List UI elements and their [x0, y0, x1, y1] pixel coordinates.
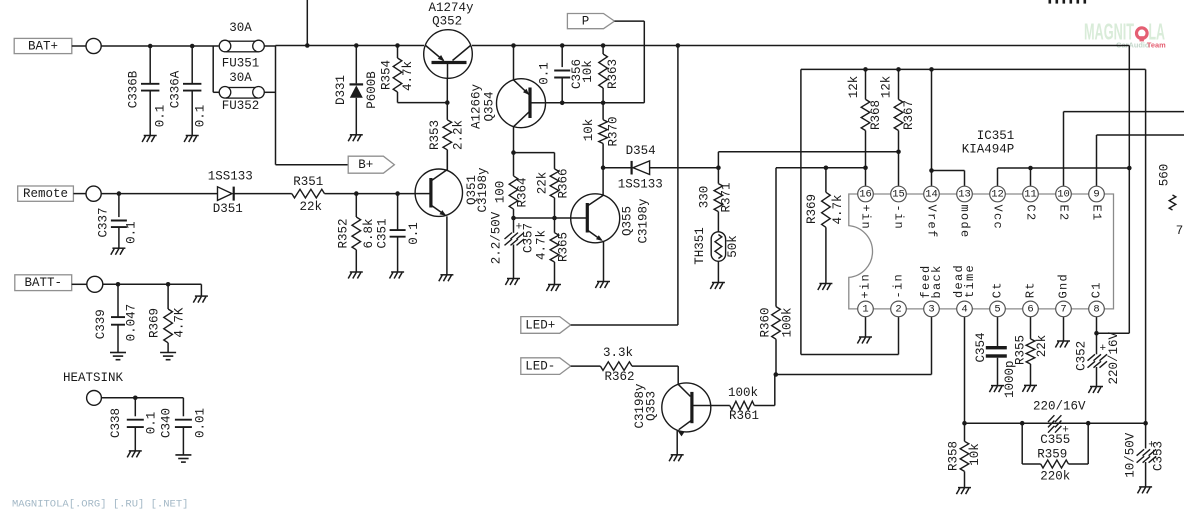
- svg-text:D354: D354: [626, 144, 656, 158]
- svg-text:12k: 12k: [880, 76, 894, 99]
- svg-text:15: 15: [892, 189, 905, 201]
- svg-text:Ct: Ct: [991, 281, 1005, 298]
- pin label E2: [1057, 204, 1071, 221]
- pin 15: [891, 186, 907, 202]
- transistor Q351: [415, 167, 490, 216]
- wire: [1145, 69, 1147, 448]
- pin label +in: [859, 273, 873, 299]
- ground: [175, 455, 191, 462]
- svg-text:back: back: [930, 264, 944, 298]
- svg-text:LED+: LED+: [525, 318, 555, 332]
- capacitor C354: [974, 317, 1017, 398]
- pin label +in: [859, 204, 873, 230]
- svg-text:22k: 22k: [1035, 335, 1049, 358]
- svg-text:100k: 100k: [781, 307, 795, 337]
- transistor Q355: [571, 194, 651, 244]
- ground: [669, 455, 684, 462]
- svg-text:4: 4: [961, 303, 967, 315]
- svg-text:C339: C339: [94, 309, 108, 339]
- svg-text:2.2/50V: 2.2/50V: [489, 211, 503, 264]
- wire: [101, 45, 218, 47]
- resistor R362: [600, 346, 678, 384]
- ground: [142, 136, 157, 143]
- wire: [1097, 46, 1130, 334]
- resistor R370: [582, 103, 621, 168]
- capacitor C353: [1124, 432, 1166, 487]
- svg-text:Q353: Q353: [644, 391, 658, 421]
- resistor R365: [535, 218, 571, 285]
- svg-text:5: 5: [994, 303, 1000, 315]
- svg-text:4.7k: 4.7k: [535, 230, 549, 260]
- pin label feedback: [919, 264, 944, 298]
- junction: [511, 216, 516, 221]
- capacitor C336A: [168, 46, 207, 136]
- svg-text:E2: E2: [1057, 204, 1071, 221]
- svg-text:560: 560: [1158, 164, 1172, 187]
- svg-text:R354: R354: [380, 60, 394, 90]
- junction: [133, 396, 138, 401]
- wire: [602, 168, 604, 196]
- ground: [127, 451, 142, 458]
- svg-text:0.1: 0.1: [193, 105, 207, 128]
- svg-text:10k: 10k: [582, 119, 596, 142]
- svg-text:1SS133: 1SS133: [208, 170, 253, 184]
- svg-text:+in: +in: [859, 273, 873, 299]
- junction: [929, 67, 934, 72]
- svg-text:330: 330: [697, 186, 711, 209]
- svg-text:Vref: Vref: [925, 204, 939, 238]
- svg-text:R358: R358: [947, 441, 961, 471]
- svg-text:BAT+: BAT+: [28, 40, 58, 54]
- svg-text:100k: 100k: [728, 386, 758, 400]
- junction: [445, 100, 450, 105]
- junction: [148, 44, 153, 49]
- junction: [676, 43, 681, 48]
- wire: [998, 168, 1130, 186]
- wire: [103, 284, 202, 296]
- resistor R367: [880, 69, 917, 151]
- junction: [929, 168, 934, 173]
- fuse FU351: [219, 21, 264, 70]
- svg-text:E1: E1: [1090, 204, 1104, 221]
- resistor 560: [1158, 164, 1184, 238]
- wire: [264, 46, 275, 165]
- svg-text:R351: R351: [293, 175, 323, 189]
- pin 5: [990, 301, 1006, 317]
- svg-text:220k: 220k: [1040, 470, 1070, 484]
- svg-text:4.7K: 4.7K: [173, 307, 187, 338]
- svg-text:Q354: Q354: [482, 91, 496, 121]
- svg-text:TH351: TH351: [693, 227, 707, 265]
- svg-text:R359: R359: [1037, 448, 1067, 462]
- capacitor C351: [375, 194, 421, 272]
- wire: [514, 152, 555, 154]
- svg-text:Q355: Q355: [621, 206, 635, 236]
- wire: [676, 431, 678, 455]
- resistor R361: [711, 375, 775, 423]
- svg-text:+: +: [1099, 343, 1106, 355]
- junction: [117, 191, 122, 196]
- junction: [560, 101, 565, 106]
- junction: [305, 43, 310, 48]
- svg-text:MAGNITOLA[.ORG] [.RU] [.NET]: MAGNITOLA[.ORG] [.RU] [.NET]: [12, 499, 188, 511]
- svg-text:P: P: [582, 15, 590, 29]
- junction: [395, 43, 400, 48]
- resistor R360: [758, 168, 794, 375]
- resistor R364: [493, 153, 529, 218]
- pin label Vcc: [991, 204, 1005, 230]
- capacitor C357: [489, 211, 535, 278]
- svg-text:C354: C354: [974, 332, 988, 362]
- pin 4: [957, 301, 973, 317]
- svg-text:R371: R371: [720, 182, 734, 212]
- wire: [1030, 168, 1032, 186]
- junction: [354, 191, 359, 196]
- wire: [931, 69, 933, 186]
- fuse FU352: [219, 71, 265, 113]
- capacitor C340: [159, 398, 207, 455]
- resistor R368: [847, 69, 883, 167]
- junction: [824, 166, 829, 171]
- wire: [276, 45, 425, 47]
- svg-text:C337: C337: [97, 207, 111, 237]
- wire: [446, 150, 448, 170]
- resistor R369: [805, 168, 845, 284]
- svg-text:R364: R364: [515, 177, 529, 207]
- junction: [863, 166, 868, 171]
- svg-text:FU351: FU351: [222, 56, 260, 70]
- capacitor C336B: [127, 46, 168, 136]
- svg-text:R362: R362: [604, 370, 634, 384]
- svg-text:LED-: LED-: [525, 360, 555, 374]
- svg-text:9: 9: [1093, 189, 1099, 201]
- svg-text:7: 7: [1176, 224, 1184, 238]
- svg-text:1000p: 1000p: [1003, 360, 1017, 398]
- ground: [439, 275, 454, 282]
- resistor R369: [148, 284, 187, 352]
- ground: [546, 285, 561, 292]
- svg-text:BATT-: BATT-: [24, 276, 62, 290]
- wire: [776, 317, 932, 375]
- svg-text:R367: R367: [902, 100, 916, 130]
- svg-text:10k: 10k: [968, 443, 982, 466]
- svg-text:12: 12: [991, 189, 1004, 201]
- ground: [111, 248, 126, 255]
- svg-text:1SS133: 1SS133: [618, 178, 663, 192]
- svg-text:HEATSINK: HEATSINK: [63, 371, 124, 385]
- junction: [716, 165, 721, 170]
- svg-text:R365: R365: [557, 232, 571, 262]
- svg-text:0.1: 0.1: [144, 412, 158, 435]
- wire: [446, 216, 448, 274]
- junction: [354, 43, 359, 48]
- junction: [560, 43, 565, 48]
- svg-text:-in: -in: [892, 273, 906, 299]
- pin label mode: [958, 204, 972, 238]
- svg-text:50k: 50k: [726, 235, 740, 258]
- wire: [1063, 317, 1065, 341]
- svg-text:14: 14: [925, 189, 938, 201]
- svg-text:3.3k: 3.3k: [603, 346, 633, 360]
- wire: [677, 46, 679, 326]
- svg-text:C353: C353: [1152, 441, 1166, 471]
- resistor R355: [1014, 317, 1049, 386]
- ground: [1022, 385, 1037, 392]
- junction: [601, 165, 606, 170]
- pin 7: [1056, 301, 1072, 317]
- svg-text:0.1: 0.1: [125, 221, 139, 244]
- ground: [348, 272, 363, 279]
- svg-text:C336A: C336A: [168, 70, 182, 108]
- junction: [1143, 421, 1148, 426]
- svg-text:8: 8: [1093, 303, 1099, 315]
- resistor R352: [336, 194, 376, 272]
- diode D351: [208, 170, 292, 216]
- svg-text:11: 11: [1024, 189, 1037, 201]
- svg-text:3: 3: [928, 303, 934, 315]
- svg-text:0.1: 0.1: [153, 105, 167, 128]
- wire: [718, 152, 898, 168]
- junction: [601, 101, 606, 106]
- net dead-time line: [965, 422, 1146, 424]
- junction: [1020, 421, 1025, 426]
- junction: [116, 282, 121, 287]
- pin 16: [858, 186, 874, 202]
- capacitor C337: [97, 194, 139, 249]
- wire: [677, 366, 679, 384]
- svg-text:time: time: [963, 264, 977, 298]
- ground: [956, 488, 971, 495]
- wire: [932, 171, 965, 187]
- junction: [552, 216, 557, 221]
- ground: [1088, 387, 1103, 394]
- connector BAT+: [14, 38, 101, 53]
- svg-text:220/16V: 220/16V: [1033, 400, 1086, 414]
- ground: [193, 296, 208, 303]
- ground: [710, 283, 725, 290]
- pin label Rt: [1024, 281, 1038, 298]
- transistor Q353: [633, 383, 711, 437]
- ic IC351 KIA494P body: [849, 129, 1114, 309]
- wire: [1097, 135, 1184, 186]
- svg-text:R369: R369: [805, 194, 819, 224]
- svg-text:C1: C1: [1090, 281, 1104, 298]
- svg-text:P600B: P600B: [365, 71, 379, 109]
- pin 3: [924, 301, 940, 317]
- junction: [601, 43, 606, 48]
- net flag LED-: [521, 358, 601, 375]
- wire: [446, 78, 448, 102]
- diode D331: [334, 46, 379, 135]
- svg-text:Gnd: Gnd: [1057, 273, 1071, 299]
- svg-text:+in: +in: [859, 204, 873, 230]
- wire: [306, 0, 308, 46]
- wire: [603, 241, 605, 281]
- svg-text:13: 13: [958, 189, 971, 201]
- transistor Q354: [470, 46, 546, 130]
- ground: [1055, 341, 1070, 348]
- pin label Ct: [991, 281, 1005, 298]
- svg-text:10k: 10k: [581, 60, 595, 83]
- ground: [818, 284, 833, 291]
- svg-text:C338: C338: [109, 408, 123, 438]
- capacitor C356: [537, 46, 584, 103]
- ground: [989, 386, 1004, 393]
- wire: [964, 317, 966, 442]
- svg-text:C336B: C336B: [127, 70, 141, 108]
- ground: [184, 136, 199, 143]
- svg-text:4.7k: 4.7k: [401, 61, 415, 91]
- svg-text:R370: R370: [606, 116, 620, 146]
- wire: [546, 102, 563, 104]
- pin 13: [957, 186, 973, 202]
- svg-text:2: 2: [895, 303, 901, 315]
- pin 6: [1023, 301, 1039, 317]
- junction: [190, 44, 195, 49]
- pin 1: [858, 301, 874, 317]
- svg-text:R369: R369: [148, 308, 162, 338]
- wire: [865, 317, 867, 337]
- pin 10: [1056, 186, 1072, 202]
- wire: [101, 193, 217, 195]
- svg-text:C355: C355: [1040, 433, 1070, 447]
- svg-text:0.047: 0.047: [124, 304, 138, 342]
- pin label C2: [1024, 204, 1038, 221]
- svg-text:KIA494P: KIA494P: [962, 142, 1015, 156]
- ground: [348, 135, 363, 142]
- svg-text:C2: C2: [1024, 204, 1038, 221]
- pin label -in: [892, 273, 906, 299]
- svg-text:10/50V: 10/50V: [1124, 432, 1138, 478]
- ground: [595, 282, 610, 289]
- svg-text:B+: B+: [358, 158, 373, 172]
- resistor R363: [581, 46, 620, 103]
- transistor Q352: [424, 1, 474, 78]
- pin 2: [891, 301, 907, 317]
- svg-text:Q352: Q352: [432, 15, 462, 29]
- svg-text:R361: R361: [729, 409, 759, 423]
- wire: [1064, 112, 1184, 187]
- connector BATT-: [15, 275, 103, 293]
- pin 9: [1089, 186, 1105, 202]
- capacitor C355: [1033, 400, 1086, 448]
- svg-text:10: 10: [1057, 189, 1070, 201]
- junction: [395, 191, 400, 196]
- page top tick marks: [1049, 0, 1087, 4]
- svg-text:6: 6: [1027, 303, 1033, 315]
- wire: [1096, 317, 1098, 355]
- wire: [472, 45, 1129, 47]
- svg-text:6.8k: 6.8k: [362, 218, 376, 248]
- junction: [863, 67, 868, 72]
- svg-text:22k: 22k: [300, 200, 323, 214]
- connector Remote: [18, 186, 102, 201]
- resistor R353: [428, 103, 465, 170]
- junction: [166, 282, 171, 287]
- junction: [962, 421, 967, 426]
- junction: [896, 150, 901, 155]
- svg-text:100: 100: [493, 181, 507, 204]
- net flag LED+: [521, 317, 678, 334]
- svg-text:mode: mode: [958, 204, 972, 238]
- svg-text:4.7k: 4.7k: [831, 194, 845, 224]
- capacitor C352: [1075, 331, 1121, 386]
- wire: [898, 152, 900, 186]
- wire: [213, 46, 218, 92]
- svg-text:Remote: Remote: [23, 187, 68, 201]
- pin label E1: [1090, 204, 1104, 221]
- svg-text:0.1: 0.1: [537, 62, 551, 85]
- svg-text:2.2k: 2.2k: [451, 120, 465, 150]
- pin label Vref: [925, 204, 939, 238]
- svg-text:R352: R352: [336, 218, 350, 248]
- junction: [511, 43, 516, 48]
- svg-text:16: 16: [859, 189, 872, 201]
- pin label -in: [892, 204, 906, 230]
- junction: [1094, 331, 1099, 336]
- svg-text:C340: C340: [159, 408, 173, 438]
- svg-text:Team: Team: [1147, 40, 1166, 49]
- diode D354: [603, 144, 718, 192]
- junction: [511, 150, 516, 155]
- junction: [896, 67, 901, 72]
- svg-text:R368: R368: [869, 100, 883, 130]
- svg-text:-in: -in: [892, 204, 906, 230]
- svg-text:220/16V: 220/16V: [1107, 331, 1121, 384]
- wire: [776, 167, 866, 169]
- ground: [1138, 487, 1153, 494]
- svg-text:1: 1: [862, 303, 868, 315]
- wire: [513, 126, 515, 152]
- svg-text:R355: R355: [1014, 335, 1028, 365]
- pin label dead time: [952, 264, 977, 298]
- junction: [774, 372, 779, 377]
- junction: [1086, 421, 1091, 426]
- pin label C1: [1090, 281, 1104, 298]
- ground: [390, 272, 405, 279]
- resistor R358: [947, 441, 982, 488]
- svg-text:C352: C352: [1075, 341, 1089, 371]
- net flag P: [567, 14, 644, 103]
- resistor R366: [535, 153, 570, 218]
- svg-text:D331: D331: [334, 75, 348, 105]
- svg-text:C3198y: C3198y: [476, 167, 490, 213]
- svg-text:Rt: Rt: [1024, 281, 1038, 298]
- thermistor TH351: [693, 222, 740, 283]
- connector HEATSINK: [63, 371, 183, 405]
- footer site text: [12, 499, 188, 511]
- svg-text:C351: C351: [375, 218, 389, 248]
- net Vref rail: [801, 68, 1146, 70]
- wire: [514, 217, 571, 219]
- pin 14: [924, 186, 940, 202]
- resistor R354: [380, 46, 448, 103]
- ground: [110, 353, 126, 360]
- svg-text:R363: R363: [606, 59, 620, 89]
- wire: [801, 69, 899, 354]
- svg-text:C3198y: C3198y: [636, 198, 650, 244]
- svg-text:30A: 30A: [229, 71, 252, 85]
- junction: [1127, 166, 1132, 171]
- capacitor C338: [109, 398, 158, 451]
- svg-text:A1274y: A1274y: [428, 1, 474, 15]
- svg-text:Vcc: Vcc: [991, 204, 1005, 230]
- svg-text:R353: R353: [428, 120, 442, 150]
- ground: [505, 279, 520, 286]
- pin 11: [1023, 186, 1039, 202]
- svg-text:30A: 30A: [229, 21, 252, 35]
- svg-text:R366: R366: [557, 168, 571, 198]
